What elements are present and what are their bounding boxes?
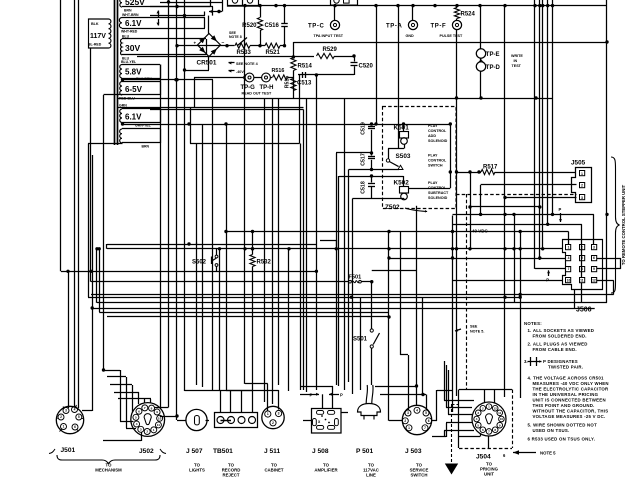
svg-text:12: 12: [592, 279, 596, 283]
svg-text:10: 10: [500, 417, 504, 421]
svg-text:TP-A: TP-A: [386, 24, 402, 30]
svg-text:BLK: BLK: [91, 22, 99, 26]
svg-text:3: 3: [65, 409, 67, 413]
svg-text:TP-H: TP-H: [260, 85, 274, 91]
svg-text:2: 2: [404, 419, 406, 423]
svg-text:C518: C518: [361, 181, 367, 194]
svg-text:11: 11: [157, 423, 161, 427]
svg-text:J 508: J 508: [312, 448, 329, 455]
svg-text:REJECT: REJECT: [223, 473, 240, 478]
svg-text:12: 12: [494, 406, 498, 410]
svg-text:TP-D: TP-D: [486, 65, 501, 71]
svg-text:7: 7: [568, 267, 570, 271]
svg-text:4: 4: [136, 422, 138, 426]
svg-text:NOTE 8: NOTE 8: [229, 35, 242, 39]
svg-text:BLU-YEL: BLU-YEL: [121, 60, 137, 64]
svg-text:+: +: [194, 41, 197, 46]
svg-text:J504: J504: [476, 454, 491, 461]
svg-text:TP-F: TP-F: [431, 24, 447, 30]
svg-text:LIGHTS: LIGHTS: [189, 468, 205, 473]
svg-text:WRITE: WRITE: [511, 54, 523, 58]
svg-text:2: 2: [146, 430, 148, 434]
svg-text:TP-E: TP-E: [486, 52, 500, 58]
svg-text:THIS POINT AND GROUND.: THIS POINT AND GROUND.: [533, 403, 595, 408]
svg-text:TEST: TEST: [512, 64, 522, 68]
svg-text:MEASURES -40 VDC ONLY WHEN: MEASURES -40 VDC ONLY WHEN: [533, 381, 609, 386]
svg-text:K502: K502: [394, 180, 410, 187]
svg-text:1: 1: [568, 246, 570, 250]
svg-text:30V: 30V: [125, 43, 140, 53]
svg-text:7: 7: [144, 406, 146, 410]
svg-text:5. WIRE SHOWN DOTTED NOT: 5. WIRE SHOWN DOTTED NOT: [528, 423, 598, 428]
svg-text:11: 11: [580, 279, 584, 283]
svg-text:SEE: SEE: [470, 325, 478, 329]
svg-text:7: 7: [424, 426, 426, 430]
svg-text:TB501: TB501: [213, 448, 233, 455]
svg-text:3.: 3.: [524, 359, 528, 364]
svg-text:J 507: J 507: [186, 448, 203, 455]
svg-text:R517: R517: [483, 165, 498, 171]
svg-text:6.1V: 6.1V: [125, 19, 142, 28]
svg-text:IN THE UNIVERSAL PRICING: IN THE UNIVERSAL PRICING: [533, 392, 599, 397]
svg-text:R524: R524: [461, 12, 476, 18]
svg-text:J505: J505: [571, 160, 586, 167]
svg-text:9: 9: [593, 267, 595, 271]
svg-text:WITHOUT THE CAPACITOR, THIS: WITHOUT THE CAPACITOR, THIS: [533, 409, 609, 414]
svg-text:F501: F501: [349, 274, 362, 280]
svg-text:10: 10: [567, 279, 571, 283]
svg-text:J502: J502: [139, 448, 154, 455]
svg-text:CABINET: CABINET: [264, 468, 283, 473]
svg-text:9: 9: [156, 410, 158, 414]
svg-text:SOLENOID: SOLENOID: [428, 196, 448, 200]
svg-text:WHT-RED: WHT-RED: [121, 30, 138, 34]
svg-text:USED ON TSUS.: USED ON TSUS.: [533, 428, 570, 433]
svg-text:J506: J506: [576, 307, 592, 314]
svg-text:3: 3: [140, 427, 142, 431]
svg-text:BRN: BRN: [142, 145, 150, 149]
svg-text:SWITCH: SWITCH: [428, 164, 443, 168]
svg-text:NOTE 5: NOTE 5: [540, 451, 556, 456]
svg-text:GND: GND: [406, 34, 415, 38]
svg-text:J 511: J 511: [264, 448, 280, 455]
svg-text:PLAY: PLAY: [428, 181, 438, 185]
svg-text:5: 5: [78, 415, 80, 419]
svg-text:K501: K501: [394, 125, 410, 132]
svg-text:CR501: CR501: [197, 60, 217, 67]
svg-text:-40V: -40V: [236, 70, 244, 74]
svg-text:VOLTAGE MEASURES -25 V DC.: VOLTAGE MEASURES -25 V DC.: [533, 414, 606, 419]
svg-text:2: 2: [272, 421, 274, 425]
svg-text:S503: S503: [396, 153, 411, 160]
svg-text:6: 6: [138, 409, 140, 413]
svg-text:R521: R521: [266, 50, 281, 56]
svg-text:AMPLIFIER: AMPLIFIER: [314, 468, 338, 473]
svg-text:2: 2: [581, 183, 583, 187]
svg-text:525V: 525V: [125, 0, 145, 7]
svg-text:P 501: P 501: [356, 448, 373, 455]
svg-text:11: 11: [498, 411, 502, 415]
svg-text:FROM SOLDERED END.: FROM SOLDERED END.: [533, 334, 587, 339]
svg-text:4: 4: [416, 408, 418, 412]
svg-text:Z502: Z502: [385, 204, 400, 211]
svg-text:ADD: ADD: [428, 134, 436, 138]
svg-text:R515: R515: [285, 76, 291, 89]
svg-text:1: 1: [153, 428, 155, 432]
svg-text:3: 3: [278, 412, 280, 416]
svg-text:6.1V: 6.1V: [125, 113, 142, 122]
svg-text:J 503: J 503: [405, 448, 422, 455]
svg-text:C519: C519: [361, 122, 367, 135]
svg-text:C517: C517: [361, 153, 367, 166]
svg-text:SEE NOTE 4: SEE NOTE 4: [236, 62, 259, 66]
svg-text:TPA INPUT TEST: TPA INPUT TEST: [314, 34, 344, 38]
svg-text:SWITCH: SWITCH: [411, 473, 428, 478]
svg-text:R529: R529: [323, 47, 338, 53]
svg-text:MECHANISM: MECHANISM: [95, 468, 122, 473]
svg-text:TP-C: TP-C: [308, 24, 324, 30]
svg-text:BRN: BRN: [124, 9, 132, 13]
svg-text:P: P: [546, 278, 549, 283]
svg-text:C520: C520: [359, 64, 374, 70]
svg-text:LINE: LINE: [366, 473, 376, 478]
svg-text:PLAY: PLAY: [428, 154, 438, 158]
svg-text:PLAY: PLAY: [428, 124, 438, 128]
svg-text:BL-RED: BL-RED: [88, 43, 102, 47]
svg-text:TWISTED PAIR.: TWISTED PAIR.: [548, 365, 583, 370]
svg-text:SOLENOID: SOLENOID: [428, 139, 448, 143]
svg-text:TP-G: TP-G: [241, 85, 256, 91]
svg-text:4. THE VOLTAGE ACROSS CR501: 4. THE VOLTAGE ACROSS CR501: [528, 376, 605, 381]
svg-text:P: P: [340, 392, 343, 397]
svg-text:1. ALL SOCKETS AS VIEWED: 1. ALL SOCKETS AS VIEWED: [528, 328, 595, 333]
svg-text:NOTES:: NOTES:: [524, 321, 542, 326]
svg-text:FROM CABLE END.: FROM CABLE END.: [533, 347, 577, 352]
svg-text:6: 6: [74, 425, 76, 429]
svg-text:117V: 117V: [90, 33, 106, 40]
svg-text:6 R533 USED ON TSUS ONLY.: 6 R533 USED ON TSUS ONLY.: [528, 437, 596, 442]
svg-text:5.8V: 5.8V: [125, 68, 142, 77]
svg-text:READ OUT TEST: READ OUT TEST: [242, 92, 272, 96]
svg-text:R514: R514: [298, 64, 313, 70]
svg-text:−: −: [222, 40, 225, 46]
svg-text:P DESIGNATES: P DESIGNATES: [543, 359, 578, 364]
svg-text:2. ALL PLUGS AS VIEWED: 2. ALL PLUGS AS VIEWED: [528, 342, 588, 347]
svg-text:4: 4: [74, 408, 76, 412]
svg-text:UNIT IS CONNECTED BETWEEN: UNIT IS CONNECTED BETWEEN: [533, 398, 606, 403]
svg-text:3: 3: [581, 196, 583, 200]
svg-text:1: 1: [581, 172, 583, 176]
svg-text:3: 3: [593, 246, 595, 250]
svg-text:4: 4: [568, 256, 570, 260]
svg-text:CONTROL: CONTROL: [428, 129, 447, 133]
svg-text:6: 6: [428, 419, 430, 423]
svg-text:P: P: [559, 207, 562, 212]
svg-text:5: 5: [135, 415, 137, 419]
svg-text:CONTROL: CONTROL: [428, 159, 447, 163]
svg-text:S502: S502: [192, 260, 207, 266]
svg-text:5: 5: [425, 411, 427, 415]
svg-text:UNIT: UNIT: [484, 472, 494, 477]
svg-text:R516: R516: [272, 68, 285, 74]
svg-text:IN: IN: [514, 59, 518, 63]
svg-text:J501: J501: [61, 447, 76, 454]
svg-text:1: 1: [408, 426, 410, 430]
svg-text:6: 6: [593, 256, 595, 260]
svg-text:C516: C516: [265, 23, 280, 29]
svg-text:1: 1: [267, 412, 269, 416]
svg-text:THE ELECTROLYTIC CAPACITOR: THE ELECTROLYTIC CAPACITOR: [533, 387, 610, 392]
svg-text:1: 1: [63, 425, 65, 429]
svg-text:SUBTRACT: SUBTRACT: [428, 191, 449, 195]
svg-text:PULSE TEST: PULSE TEST: [440, 34, 463, 38]
svg-text:2: 2: [60, 415, 62, 419]
svg-text:6-5V: 6-5V: [125, 85, 143, 94]
svg-text:TO REMOTE CONTROL STEPPER UNIT: TO REMOTE CONTROL STEPPER UNIT: [621, 184, 626, 265]
svg-text:8: 8: [151, 406, 153, 410]
svg-text:NOTE 5.: NOTE 5.: [470, 330, 484, 334]
svg-text:WHT-BRN: WHT-BRN: [122, 13, 139, 17]
svg-text:3: 3: [407, 411, 409, 415]
